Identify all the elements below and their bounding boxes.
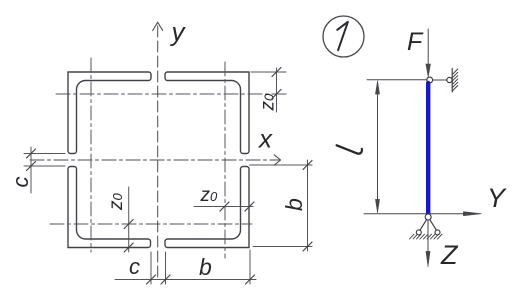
svg-text:z0: z0 bbox=[258, 93, 279, 112]
svg-text:Y: Y bbox=[487, 183, 507, 213]
centroid axis horizontal bottom bbox=[50, 223, 252, 225]
l dimension arrow top bbox=[375, 81, 379, 94]
l label bbox=[337, 145, 362, 153]
svg-text:c: c bbox=[8, 177, 33, 188]
dimension z0 bottom-left: tick at centroid axis bbox=[124, 220, 133, 229]
svg-text:F: F bbox=[407, 28, 424, 56]
angle profile bottom-left bbox=[68, 167, 151, 248]
dimension c left: extension line bottom bbox=[24, 165, 65, 167]
dimension c,b bottom: tick gap-left bbox=[147, 275, 156, 284]
Z axis arrowhead bbox=[426, 252, 430, 267]
dimension b right: tick top bbox=[303, 161, 312, 170]
top extension line bbox=[367, 79, 427, 81]
svg-text:b: b bbox=[199, 254, 212, 280]
dimension c,b bottom: tick right edge bbox=[246, 275, 255, 284]
centroid axis vertical left bbox=[90, 58, 92, 252]
dimension c left: dimension line bbox=[30, 147, 32, 193]
dimension z0 top-right: dimension line bbox=[276, 68, 278, 112]
dimension b right: tick bottom bbox=[303, 242, 312, 251]
l dimension arrow bottom bbox=[375, 200, 379, 213]
support leg right bbox=[430, 220, 437, 231]
x axis line bbox=[30, 159, 279, 161]
svg-text:y: y bbox=[170, 17, 187, 47]
force F line bbox=[427, 29, 429, 68]
angle profile top-right bbox=[165, 72, 249, 154]
angle profile top-left bbox=[68, 72, 151, 154]
svg-text:Z: Z bbox=[440, 240, 459, 270]
dimension c left: extension line top bbox=[24, 153, 65, 155]
svg-text:z0: z0 bbox=[200, 185, 219, 206]
dimension z0 bottom-center: dimension line bbox=[194, 206, 253, 208]
l dimension line bbox=[377, 82, 379, 212]
Y axis arrowhead bbox=[464, 212, 482, 216]
top pin circle bbox=[427, 77, 433, 83]
dimension z0 bottom-left: dimension line bbox=[128, 187, 130, 252]
dimension z0 bottom-left: label bbox=[106, 193, 127, 212]
dimension b right: dimension line bbox=[307, 160, 309, 251]
scheme number 1 glyph bbox=[337, 22, 348, 50]
dimension c left: tick bottom bbox=[27, 162, 36, 171]
Y axis line bbox=[364, 213, 464, 215]
column (blue bar) bbox=[426, 83, 430, 214]
y axis line bbox=[157, 26, 159, 277]
wall hatching bbox=[452, 69, 458, 91]
scheme number circle bbox=[323, 16, 364, 57]
dimension z0 top-right: tick at centroid axis bbox=[272, 90, 281, 99]
force F arrowhead bbox=[426, 64, 431, 77]
svg-text:c: c bbox=[129, 254, 140, 279]
support roller left bbox=[416, 230, 421, 235]
x axis arrowhead bbox=[274, 155, 280, 165]
bottom pin circle bbox=[425, 214, 431, 220]
svg-text:b: b bbox=[281, 198, 307, 211]
dimension c,b bottom: tick gap-right bbox=[161, 275, 170, 284]
dimension z0 top-right: extension line bbox=[251, 71, 286, 73]
Z axis line bbox=[427, 220, 429, 253]
dimension z0 top-right: tick at top edge bbox=[272, 68, 281, 77]
support ground hatching bbox=[410, 234, 443, 239]
dimension c,b bottom: extension line right edge bbox=[249, 250, 251, 284]
svg-text:x: x bbox=[257, 124, 273, 154]
dimension c,b bottom: extension line right of gap bbox=[165, 252, 167, 284]
centroid axis horizontal top bbox=[56, 93, 286, 95]
y axis arrowhead bbox=[153, 22, 163, 30]
dimension b right: extension line bottom bbox=[253, 246, 312, 248]
dimension z0 bottom-left: tick at bottom edge bbox=[124, 243, 133, 252]
dimension c,b bottom: dimension line bbox=[115, 279, 256, 281]
centroid axis vertical right bbox=[224, 62, 226, 258]
wall line bbox=[451, 69, 453, 93]
link to wall bbox=[433, 79, 447, 81]
support roller right bbox=[435, 230, 440, 235]
dimension b right: label bbox=[281, 198, 307, 211]
dimension c,b bottom: extension line left of gap bbox=[150, 252, 152, 284]
dimension z0 bottom-center: tick at right edge bbox=[245, 202, 254, 211]
svg-text:z0: z0 bbox=[106, 193, 127, 212]
angle profile bottom-right bbox=[165, 167, 249, 248]
dimension b right: extension line top bbox=[250, 164, 313, 166]
dimension c left: label bbox=[8, 177, 33, 188]
dimension z0 top-right: label bbox=[258, 93, 279, 112]
support leg left bbox=[420, 220, 427, 231]
dimension z0 bottom-center: tick at centroid axis bbox=[220, 202, 229, 211]
dimension c left: tick top bbox=[27, 149, 36, 158]
wall roller circle bbox=[447, 77, 452, 82]
